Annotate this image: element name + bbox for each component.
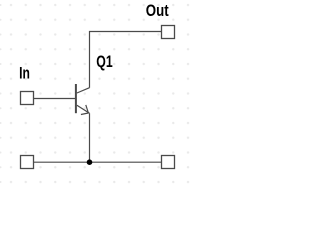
transistor Q1 [76,84,90,115]
wire emitter to bottom net [89,113,91,162]
svg-text:In: In [19,65,30,83]
wire collector to Out [90,32,162,88]
port Out [162,26,175,39]
port In [21,92,34,105]
port bottom-right [162,156,175,169]
svg-text:Out: Out [146,2,169,21]
svg-text:Q1: Q1 [96,53,112,71]
junction emitter-bottom net [87,159,93,165]
wire base from In [34,98,76,100]
port bottom-left [21,156,34,169]
wire bottom net [34,161,161,163]
